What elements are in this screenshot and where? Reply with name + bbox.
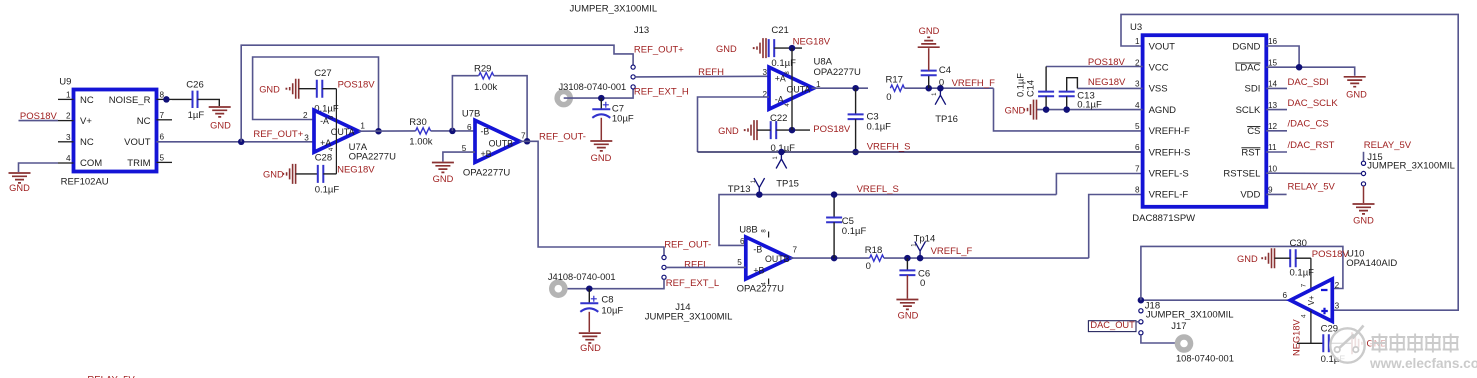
svg-text:OPA2277U: OPA2277U: [349, 151, 396, 162]
svg-text:CS: CS: [1247, 126, 1260, 137]
svg-text:V+: V+: [80, 116, 92, 127]
U9 pin 2 stub: [58, 112, 74, 121]
U3 pin number 12: [1268, 122, 1278, 131]
svg-text:0.1µF: 0.1µF: [315, 185, 340, 196]
svg-text:0.1µF: 0.1µF: [867, 121, 892, 132]
svg-text:R18: R18: [865, 245, 882, 256]
label REF_OUT+: [253, 129, 303, 140]
U10 V+ pin wire: [1310, 258, 1312, 290]
wire R30 to U7B: [431, 130, 475, 132]
U8A pin number 8: [785, 71, 791, 75]
U8B pin number 7: [793, 245, 798, 254]
wire RSTSEL to J15: [1266, 172, 1361, 174]
capacitor C7 10uF: [592, 98, 634, 140]
svg-text:TP13: TP13: [728, 184, 751, 195]
jumper J14 JUMPER_3X100MIL: [645, 255, 733, 322]
capacitor C8 10uF: [580, 289, 623, 332]
U8B pin 8 stub: [762, 229, 769, 238]
svg-text:NC: NC: [80, 137, 94, 148]
label VREFL_F: [931, 246, 973, 257]
U7A pin number 1: [360, 122, 365, 131]
U9 pin 6 stub: [157, 132, 173, 142]
capacitor C29 0.1uF: [1321, 324, 1346, 366]
wire J15 to ground: [1363, 186, 1365, 203]
svg-text:/DAC_CS: /DAC_CS: [1288, 119, 1329, 130]
wire C21 rail: [774, 47, 802, 49]
resistor R17 0: [886, 74, 905, 103]
svg-text:NEG18V: NEG18V: [337, 165, 375, 176]
net POS18V wire (U3 VCC): [1046, 66, 1143, 68]
ground C22: [718, 120, 757, 140]
svg-text:OUTB: OUTB: [765, 254, 790, 264]
svg-text:+A: +A: [320, 138, 331, 148]
junction TP15: [778, 149, 785, 156]
op-amp U8B: [737, 224, 791, 294]
wire U7B output REF_OUT-: [520, 141, 665, 255]
U3 pin number 3: [1135, 80, 1140, 89]
svg-text:POS18V: POS18V: [1312, 249, 1350, 260]
svg-text:POS18V: POS18V: [1088, 57, 1126, 68]
wire U3 VOUT loop to U10: [1121, 14, 1458, 310]
wire U8B out: [790, 257, 869, 259]
svg-text:OPA2277U: OPA2277U: [737, 284, 784, 295]
capacitor C26 1uF: [186, 79, 204, 121]
svg-text:3: 3: [304, 133, 309, 142]
svg-text:U3: U3: [1130, 22, 1142, 33]
wire U7B +in to ground: [443, 152, 475, 161]
wire RELAY_5V tick: [1363, 152, 1365, 162]
svg-text:15: 15: [1268, 58, 1278, 67]
svg-text:3: 3: [1135, 80, 1140, 89]
svg-text:REFH: REFH: [698, 67, 724, 78]
svg-text:0: 0: [886, 92, 891, 103]
ground U9 COM: [9, 173, 31, 193]
svg-text:REF_OUT-: REF_OUT-: [664, 240, 711, 251]
junction C14 rail: [1043, 106, 1050, 113]
svg-text:J3108-0740-001: J3108-0740-001: [559, 82, 627, 92]
junction TP16 node: [937, 85, 944, 92]
svg-text:U9: U9: [59, 76, 71, 87]
wire R17 to corner: [904, 87, 993, 89]
svg-text:REFL: REFL: [684, 259, 708, 270]
U7A pin number 3: [304, 133, 309, 142]
junction LDAC: [1296, 64, 1303, 71]
svg-text:OUTB: OUTB: [489, 139, 514, 149]
svg-text:SCLK: SCLK: [1236, 105, 1261, 116]
svg-text:VOUT: VOUT: [124, 137, 151, 148]
svg-text:GND: GND: [433, 174, 454, 184]
wire REF_OUT+ to J13: [241, 45, 633, 142]
ground C30: [1237, 248, 1275, 268]
ground C21: [716, 38, 766, 58]
svg-text:/DAC_RST: /DAC_RST: [1288, 140, 1335, 151]
net NEG18V wire (U3 VSS): [1077, 87, 1142, 89]
capacitor C27 0.1uF: [314, 68, 339, 114]
connector J4 pad: [548, 272, 616, 298]
resistor R29 1.00k: [474, 64, 497, 94]
label POS18V (U7A): [338, 80, 376, 91]
svg-text:6: 6: [467, 123, 472, 132]
svg-text:LDAC: LDAC: [1235, 63, 1260, 74]
capacitor C14 0.1uF: [1016, 67, 1055, 110]
svg-text:VREFH_S: VREFH_S: [867, 141, 911, 152]
svg-text:TRIM: TRIM: [127, 158, 150, 169]
svg-text:C28: C28: [315, 152, 332, 163]
junction J18 node: [1138, 297, 1145, 304]
net /DAC_CS: [1266, 119, 1328, 131]
wire J3 to J13: [564, 89, 633, 98]
svg-text:POS18V: POS18V: [813, 124, 851, 135]
svg-text:C22: C22: [770, 113, 787, 124]
svg-text:VCC: VCC: [1149, 63, 1169, 74]
junction TP13: [756, 191, 763, 198]
ground C4: [918, 26, 940, 47]
svg-text:13: 13: [1268, 101, 1278, 110]
ground C27: [259, 79, 299, 99]
junction C13 rail: [1063, 106, 1070, 113]
svg-text:NOISE_R: NOISE_R: [109, 95, 151, 106]
wire U10 feedback: [1141, 246, 1343, 300]
label NEG18V (U8A): [793, 37, 831, 48]
svg-text:GND: GND: [1346, 89, 1367, 99]
svg-text:4: 4: [66, 154, 71, 163]
svg-text:C8: C8: [601, 295, 613, 306]
svg-text:U8B: U8B: [739, 224, 757, 235]
connector J17 pad: [1171, 321, 1234, 363]
svg-text:RELAY_5V: RELAY_5V: [1288, 182, 1336, 193]
label POS18V (U8A): [813, 124, 851, 135]
jumper J18 JUMPER_3X100MIL: [1139, 300, 1234, 335]
svg-text:GND: GND: [263, 170, 284, 180]
svg-text:6: 6: [1135, 143, 1140, 152]
svg-text:1: 1: [66, 90, 71, 99]
junction C6 node: [904, 255, 911, 262]
resistor R18 0: [865, 245, 884, 272]
svg-text:7: 7: [160, 111, 165, 120]
U3 pin number 15: [1268, 58, 1278, 67]
label RELAY_5V (J15): [1364, 140, 1412, 151]
svg-text:+B: +B: [753, 266, 764, 276]
wire R18 to VREFL_F: [884, 257, 1089, 259]
wire C26 to ground: [198, 99, 220, 106]
jumper J13 JUMPER_3X100MIL: [570, 4, 658, 89]
wire LDAC to ground: [1266, 67, 1354, 76]
svg-text:REF_EXT_H: REF_EXT_H: [634, 87, 689, 98]
op-amp U8A: [769, 57, 861, 110]
junction C22 rail: [789, 127, 796, 134]
U8A supply pin line: [791, 48, 793, 130]
U7B pin number 6: [467, 123, 472, 132]
svg-text:JUMPER_3X100MIL: JUMPER_3X100MIL: [1367, 161, 1455, 172]
svg-text:NC: NC: [80, 95, 94, 106]
svg-text:-A: -A: [775, 95, 784, 105]
port DAC_OUT: [1088, 320, 1138, 331]
capacitor C22 0.1uF: [770, 113, 795, 154]
svg-text:7: 7: [521, 132, 526, 141]
svg-text:GND: GND: [1237, 254, 1258, 264]
label REFH: [698, 67, 724, 78]
svg-text:SDI: SDI: [1245, 84, 1261, 95]
wire VOUT / REF_OUT+: [157, 141, 315, 143]
svg-text:GND: GND: [591, 153, 612, 163]
svg-text:RST: RST: [1241, 147, 1260, 158]
U10 V- pin wire: [1310, 311, 1312, 344]
svg-text:C21: C21: [771, 25, 788, 36]
svg-text:12: 12: [1268, 122, 1278, 131]
wire gnd to C27: [299, 88, 316, 90]
U7A pin number 2: [303, 111, 308, 120]
svg-text:REF102AU: REF102AU: [61, 177, 109, 188]
op-amp U10: [1290, 248, 1397, 321]
svg-text:VREFH_F: VREFH_F: [952, 78, 995, 89]
capacitor C6 0: [899, 258, 930, 298]
U8A pin number 1: [816, 80, 821, 89]
svg-text:GND: GND: [580, 343, 601, 353]
net DAC_SCLK: [1266, 98, 1338, 110]
U9 pin 1 stub: [58, 90, 74, 99]
svg-text:8: 8: [1135, 186, 1140, 195]
label REF_EXT_H: [634, 87, 689, 98]
ground C6: [896, 300, 918, 321]
svg-text:DAC_SCLK: DAC_SCLK: [1288, 98, 1339, 109]
svg-text:10: 10: [1268, 164, 1278, 173]
svg-text:-A: -A: [320, 116, 329, 126]
label NEG18V (U3): [1088, 77, 1126, 88]
U3 pin number 1: [1135, 37, 1140, 46]
U9 pin 8 stub: [157, 90, 173, 99]
U8B pin 4 stub: [762, 279, 769, 286]
svg-text:R17: R17: [886, 74, 903, 85]
junction C3 top: [852, 85, 859, 92]
svg-text:J17: J17: [1171, 321, 1186, 332]
svg-text:0.1µF: 0.1µF: [1077, 100, 1102, 111]
svg-text:DAC8871SPW: DAC8871SPW: [1132, 213, 1195, 224]
op-amp U7B: [462, 108, 520, 178]
svg-text:GND: GND: [9, 183, 30, 193]
wire U9 COM to ground: [19, 163, 59, 172]
test point TP16: [932, 88, 958, 125]
junction C4 node: [925, 85, 932, 92]
test point TP14: [912, 233, 936, 258]
capacitor C13 0.1uF: [1059, 78, 1102, 111]
U10 pin number 4: [1301, 314, 1308, 318]
net VREFH_S wire: [698, 151, 1143, 153]
svg-text:14: 14: [1268, 80, 1278, 89]
label VREFH_S: [867, 141, 911, 152]
svg-text:5: 5: [737, 258, 742, 267]
svg-text:GND: GND: [210, 120, 231, 130]
net RELAY_5V (VDD): [1266, 182, 1335, 195]
jumper J15 JUMPER_3X100MIL: [1361, 152, 1455, 186]
wire gnd to C28: [296, 173, 317, 175]
svg-text:1.00k: 1.00k: [474, 82, 497, 93]
svg-text:JUMPER_3X100MIL: JUMPER_3X100MIL: [1146, 309, 1234, 320]
svg-text:RELAY_5V: RELAY_5V: [87, 375, 135, 378]
junction TP14 node: [917, 255, 924, 262]
svg-text:JUMPER_3X100MIL: JUMPER_3X100MIL: [645, 311, 733, 322]
svg-text:VREFL_F: VREFL_F: [931, 246, 973, 257]
svg-text:C14: C14: [1026, 80, 1036, 97]
label REF_EXT_L: [666, 278, 719, 289]
svg-text:J4108-0740-001: J4108-0740-001: [548, 272, 616, 282]
U10 pin number 3: [1335, 302, 1340, 311]
svg-text:GND: GND: [919, 26, 940, 36]
U3 pin number 10: [1268, 164, 1278, 173]
label REF_OUT- (U7B): [539, 132, 586, 143]
svg-text:10µF: 10µF: [601, 306, 623, 317]
capacitor C21 0.1uF: [769, 25, 796, 69]
svg-text:POS18V: POS18V: [338, 80, 376, 91]
svg-text:DAC_OUT: DAC_OUT: [1090, 320, 1135, 330]
junction C21 rail: [789, 45, 796, 52]
svg-text:5: 5: [160, 153, 165, 162]
svg-text:VREFH-S: VREFH-S: [1149, 147, 1191, 158]
svg-text:4: 4: [1135, 101, 1140, 110]
U9 pin 5 stub: [157, 153, 173, 162]
net POS18V (U9 V+): [19, 111, 59, 122]
svg-text:REF_OUT+: REF_OUT+: [253, 129, 303, 140]
svg-text:NEG18V: NEG18V: [1291, 319, 1301, 356]
svg-text:OUTA: OUTA: [331, 127, 355, 137]
ground C28: [263, 164, 296, 184]
U9 pin 7 stub: [157, 111, 173, 120]
U3 pin number 7: [1135, 165, 1140, 174]
wire U10 out to J18 node: [1141, 299, 1292, 301]
wire VREFL_F to DAC pin8: [1089, 195, 1143, 259]
test point TP13: [728, 178, 765, 195]
svg-text:OPA2277U: OPA2277U: [463, 168, 510, 179]
net REFH wire: [635, 75, 769, 78]
U8A supply line overlay: [791, 48, 793, 130]
capacitor C30 0.1uF: [1275, 238, 1315, 279]
svg-text:10µF: 10µF: [612, 113, 634, 124]
svg-text:GND: GND: [259, 84, 280, 94]
U3 pin number 2: [1135, 58, 1140, 67]
ground J15: [1353, 204, 1375, 226]
svg-text:VDD: VDD: [1240, 190, 1260, 201]
svg-text:NC: NC: [137, 116, 151, 127]
svg-text:RSTSEL: RSTSEL: [1223, 169, 1260, 180]
chip U9 REF102AU: [59, 76, 156, 187]
U7B pin number 7: [521, 132, 526, 141]
U7B pin number 5: [462, 144, 467, 153]
U9 pin 3 stub: [58, 133, 74, 142]
junction U7A output: [375, 128, 382, 135]
svg-text:JUMPER_3X100MIL: JUMPER_3X100MIL: [570, 4, 658, 15]
svg-text:GND: GND: [898, 311, 919, 321]
U3 pin number 13: [1268, 101, 1278, 110]
svg-text:C30: C30: [1290, 238, 1307, 249]
svg-text:GND: GND: [1005, 105, 1026, 115]
wire node to R29: [452, 76, 478, 131]
svg-text:R29: R29: [474, 64, 491, 75]
U3 pin number 4: [1135, 101, 1140, 110]
svg-text:0: 0: [920, 278, 925, 289]
svg-text:1: 1: [1135, 37, 1140, 46]
ground DGND/LDAC: [1344, 77, 1367, 100]
svg-text:COM: COM: [80, 158, 102, 169]
svg-text:6: 6: [160, 132, 165, 141]
svg-text:VOUT: VOUT: [1149, 41, 1176, 52]
U3 pin number 6: [1135, 143, 1140, 152]
ground C29: [1352, 332, 1387, 354]
svg-text:C26: C26: [186, 79, 203, 90]
svg-text:7: 7: [793, 245, 798, 254]
svg-text:3: 3: [66, 133, 71, 142]
junction C8 node: [586, 285, 593, 292]
net VREFL_S wire: [719, 195, 1056, 246]
wire C27 to V+ rail: [322, 88, 336, 90]
svg-text:J13: J13: [634, 25, 649, 36]
svg-text:1µF: 1µF: [188, 110, 205, 121]
svg-text:VREFL-S: VREFL-S: [1149, 169, 1189, 180]
svg-text:V+: V+: [1307, 295, 1316, 305]
junction REF_OUT+ node: [238, 139, 245, 146]
chip U3 DAC8871SPW: [1130, 22, 1266, 224]
svg-text:+B: +B: [481, 149, 492, 159]
label REFL: [684, 259, 708, 270]
svg-text:R30: R30: [409, 117, 426, 128]
svg-text:REF_EXT_L: REF_EXT_L: [666, 278, 719, 289]
label NEG18V (U7A): [337, 165, 375, 176]
svg-text:1.00k: 1.00k: [409, 137, 432, 148]
wire U8A out: [812, 87, 869, 89]
junction C3 bottom: [852, 149, 859, 156]
svg-text:108-0740-001: 108-0740-001: [1176, 353, 1234, 363]
svg-text:-B: -B: [481, 127, 490, 137]
svg-text:OUTA: OUTA: [787, 84, 811, 94]
label POS18V (U10): [1312, 249, 1350, 260]
resistor R30 1.00k: [409, 117, 432, 147]
junction C5 top: [831, 191, 838, 198]
svg-text:VREFL_S: VREFL_S: [857, 184, 899, 195]
wire J14 to J4: [560, 279, 664, 288]
junction NOISE_R: [163, 96, 170, 103]
U10 pin number 2: [1335, 281, 1340, 290]
svg-text:www.elecfans.com: www.elecfans.com: [1369, 356, 1477, 371]
svg-text:POS18V: POS18V: [20, 111, 58, 122]
junction C7 node: [598, 95, 605, 102]
capacitor C28 0.1uF: [315, 152, 340, 195]
svg-text:NEG18V: NEG18V: [793, 37, 831, 48]
svg-text:4: 4: [1301, 314, 1308, 318]
wire VREFH_F to DAC: [994, 88, 1143, 131]
svg-text:1: 1: [360, 122, 365, 131]
label REF_OUT- (J14): [664, 240, 711, 251]
svg-text:C4: C4: [939, 65, 951, 76]
svg-text:GND: GND: [718, 126, 739, 136]
label NEG18V (U10): [1291, 319, 1301, 356]
svg-text:TP15: TP15: [776, 178, 799, 189]
svg-text:7: 7: [1301, 283, 1308, 287]
svg-text:REF_OUT-: REF_OUT-: [539, 132, 586, 143]
wire C22 rail: [757, 129, 810, 131]
wire R29 to U7B out: [494, 76, 527, 142]
svg-text:6: 6: [1282, 291, 1287, 300]
wire NOISE_R to C26: [172, 98, 192, 100]
label REF_OUT+ (J13): [634, 44, 684, 55]
svg-text:OPA2277U: OPA2277U: [814, 67, 861, 78]
svg-text:-B: -B: [753, 245, 762, 255]
svg-text:2: 2: [303, 111, 308, 120]
U8B pin number 5: [737, 258, 742, 267]
svg-text:C27: C27: [314, 68, 331, 79]
op-amp U7A: [314, 110, 396, 162]
svg-text:GND: GND: [716, 44, 737, 54]
U9 pin 4 stub: [58, 154, 74, 163]
svg-text:11: 11: [1268, 143, 1277, 152]
label VREFH_F: [952, 78, 995, 89]
